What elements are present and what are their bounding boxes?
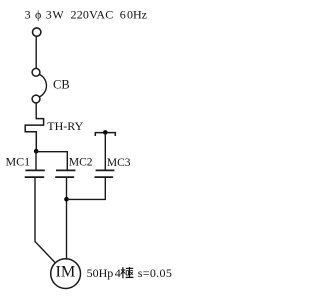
svg-text:IM: IM — [56, 262, 76, 280]
node: junction of MC2/MC3 wires — [64, 197, 69, 202]
svg-text:220VAC: 220VAC — [71, 7, 114, 21]
contactor MC2: bottom plate — [55, 176, 74, 178]
label: kanji pole character — [121, 267, 133, 278]
contactor MC3: top plate — [96, 169, 115, 171]
node: junction below TH-RY — [34, 149, 39, 154]
node: MC3 tap bar with junction dot — [95, 133, 115, 136]
svg-text:4: 4 — [115, 266, 121, 280]
breaker CB: arc between contacts — [39, 74, 46, 97]
svg-text:6: 6 — [120, 7, 126, 21]
terminal: incoming supply circle — [33, 28, 41, 36]
wire: MC1 to motor (with diagonal) — [35, 178, 55, 263]
wire: branch from junction to MC2 — [36, 152, 67, 171]
thermal relay TH-RY heater element — [25, 119, 43, 151]
wire: terminal to CB — [35, 37, 37, 68]
contactor MC2: top plate — [56, 169, 75, 171]
breaker CB: upper contact circle — [32, 68, 40, 76]
breaker CB: lower contact circle — [32, 95, 40, 103]
wire: MC3 drop to junction — [67, 178, 106, 200]
svg-text:3 ϕ 3W: 3 ϕ 3W — [25, 7, 65, 21]
svg-text:0Hz: 0Hz — [127, 7, 147, 21]
svg-text:MC3: MC3 — [107, 157, 131, 169]
wire: CB to TH-RY — [35, 103, 37, 119]
svg-text:MC2: MC2 — [69, 157, 93, 169]
wire: tap bar down to MC3 — [104, 133, 106, 171]
svg-text:50Hp: 50Hp — [87, 266, 114, 280]
motor IM circle — [51, 259, 81, 289]
contactor MC1: bottom plate — [25, 176, 45, 178]
svg-text:TH-RY: TH-RY — [47, 119, 83, 133]
svg-text:s=0.05: s=0.05 — [138, 266, 173, 280]
wire: junction down to MC1 — [35, 151, 37, 170]
contactor MC1: top plate — [25, 169, 44, 171]
wire: MC2 down to motor — [66, 178, 68, 260]
svg-text:MC1: MC1 — [6, 155, 31, 169]
contactor MC3: bottom plate — [95, 176, 114, 178]
svg-text:CB: CB — [53, 78, 70, 92]
